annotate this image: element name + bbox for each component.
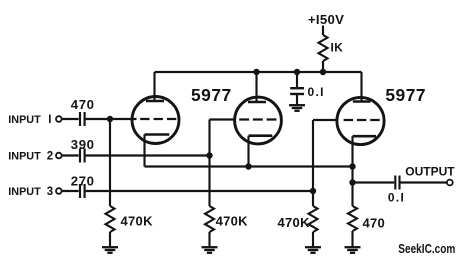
- svg-text:470K: 470K: [278, 215, 311, 230]
- svg-text:I: I: [48, 114, 51, 126]
- svg-text:OUTPUT: OUTPUT: [405, 164, 455, 178]
- svg-text:INPUT: INPUT: [8, 186, 41, 198]
- svg-text:+I50V: +I50V: [308, 12, 344, 27]
- svg-text:INPUT: INPUT: [8, 150, 41, 162]
- svg-text:IK: IK: [331, 41, 344, 55]
- svg-text:470: 470: [363, 216, 386, 231]
- svg-text:5977: 5977: [191, 85, 232, 105]
- svg-text:2: 2: [47, 151, 53, 163]
- svg-text:0.I: 0.I: [308, 85, 325, 99]
- svg-text:270: 270: [71, 173, 95, 188]
- svg-text:390: 390: [71, 137, 95, 152]
- svg-text:5977: 5977: [385, 85, 426, 105]
- svg-text:470: 470: [71, 97, 95, 112]
- svg-text:SeekIC.com: SeekIC.com: [398, 241, 455, 256]
- svg-text:0.I: 0.I: [388, 190, 405, 204]
- svg-text:3: 3: [47, 186, 53, 198]
- svg-text:470K: 470K: [216, 214, 249, 229]
- svg-text:INPUT: INPUT: [8, 114, 41, 126]
- svg-text:470K: 470K: [121, 214, 154, 229]
